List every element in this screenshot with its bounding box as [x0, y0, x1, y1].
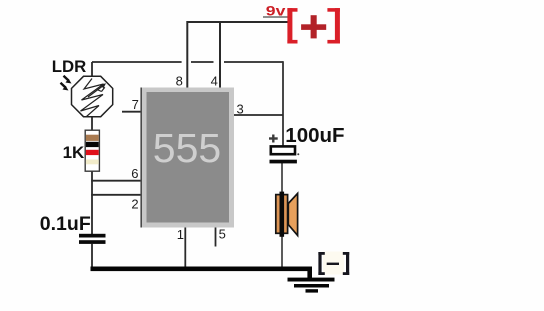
- tint inside negative terminal brackets: [323, 252, 344, 275]
- wire: pin 5 stub: [215, 227, 217, 247]
- ground symbol bar 2: [294, 284, 329, 288]
- wire: speaker to ground rail: [281, 234, 283, 267]
- LDR internal zigzag with arrow: [81, 79, 105, 117]
- wire: LDR horizontal run segment 1: [92, 61, 182, 63]
- speaker LS1 body: [276, 195, 288, 234]
- svg-text:9v: 9v: [266, 2, 286, 18]
- R1 band red: [86, 150, 99, 155]
- svg-text:555: 555: [153, 125, 221, 171]
- wire: pin 2 branch: [91, 194, 142, 196]
- LDR light arrow 2: [61, 83, 69, 91]
- wire: thick ground rail: [91, 267, 313, 272]
- wire: pin 6 branch: [91, 180, 142, 182]
- wire: 9V top rail: [187, 21, 290, 23]
- svg-text:1K: 1K: [63, 143, 85, 162]
- R1 band brown: [86, 135, 99, 141]
- wire: pin 8 drop from 9V rail: [186, 21, 188, 88]
- wire: right vertical bus to C2: [282, 61, 284, 146]
- wire: pin 1 to ground rail: [184, 227, 186, 267]
- wire: C1 to ground rail: [91, 244, 93, 267]
- ground symbol bar 3: [306, 289, 319, 292]
- LDR light arrow 1: [64, 76, 72, 84]
- capacitor C2 100uF plus sign: [269, 135, 278, 143]
- svg-text:0.1uF: 0.1uF: [40, 213, 91, 235]
- battery positive terminal [+] left bracket: [287, 8, 297, 43]
- svg-text:2: 2: [131, 197, 138, 212]
- R1 band black: [86, 142, 99, 147]
- battery positive terminal [+] right bracket: [327, 8, 340, 43]
- capacitor C2 100uF top plate (outlined): [271, 146, 295, 154]
- svg-text:1: 1: [177, 227, 184, 242]
- capacitor C1 0.1uF bottom plate: [79, 240, 106, 244]
- wire: R1 down to C1: [91, 171, 93, 234]
- wire: LDR horizontal run segment 2 (hop gap): [191, 61, 214, 63]
- wire: LDR horizontal run segment 3 (hop gap): [224, 61, 283, 63]
- wire: C2 to speaker: [281, 163, 283, 195]
- wire: LDR top vertical: [91, 62, 93, 77]
- capacitor C2 100uF bottom plate: [270, 160, 297, 164]
- ground symbol bar 1: [288, 278, 335, 282]
- speck artifact near C2 plate: [297, 153, 299, 155]
- capacitor C1 0.1uF top plate: [79, 234, 106, 238]
- wire: stub under 9v label: [263, 16, 289, 18]
- battery negative terminal minus sign: [327, 263, 339, 265]
- battery positive terminal plus sign: [301, 15, 326, 38]
- resistor R1 1K body: [85, 130, 99, 171]
- battery negative terminal [-] left bracket: [318, 252, 324, 275]
- wire: pin 3 to right bus: [234, 114, 283, 116]
- svg-text:LDR: LDR: [52, 57, 87, 76]
- svg-text:4: 4: [211, 73, 218, 88]
- svg-text:7: 7: [132, 97, 139, 112]
- R1 band cream: [86, 160, 99, 165]
- svg-text:5: 5: [219, 226, 226, 241]
- battery negative terminal [-] right bracket: [343, 252, 349, 275]
- svg-text:100uF: 100uF: [285, 124, 344, 147]
- svg-text:6: 6: [131, 166, 138, 181]
- speaker LS1 center bar: [280, 192, 285, 237]
- speaker LS1 cone: [288, 193, 297, 235]
- wire: pin 7 stub: [122, 111, 141, 113]
- svg-text:3: 3: [237, 102, 244, 117]
- op-amp/timer IC U1 555 body: [140, 88, 234, 228]
- wire: pin 4 drop from 9V rail: [219, 21, 221, 88]
- svg-text:8: 8: [176, 73, 183, 88]
- LDR body (photoresistor circle): [72, 76, 113, 116]
- wire: LDR to R1: [91, 117, 93, 132]
- wire: ground rail step down to ground symbol: [307, 267, 312, 279]
